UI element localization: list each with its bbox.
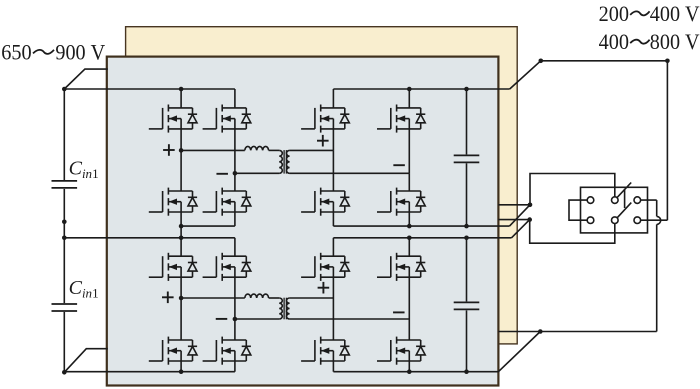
svg-text:400: 400	[599, 29, 629, 54]
svg-text:900 V: 900 V	[55, 39, 105, 64]
svg-text:400 V: 400 V	[650, 1, 700, 26]
svg-text:650: 650	[1, 39, 31, 64]
svg-text:800 V: 800 V	[650, 29, 700, 54]
svg-text:200: 200	[599, 1, 629, 26]
